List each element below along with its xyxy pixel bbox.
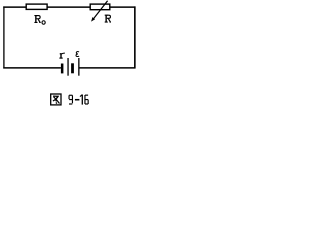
wire top-middle segment — [48, 6, 90, 8]
caption text hyphen — [75, 99, 80, 101]
label epsilon (emf) — [76, 52, 79, 57]
battery cell 2 positive plate (thin long) — [78, 58, 79, 76]
rheostat arrow shaft — [93, 1, 107, 19]
wire top-left segment — [3, 6, 26, 8]
caption character tu (figure) : outer box — [51, 94, 61, 105]
caption text 1 — [80, 95, 82, 105]
caption character tu : inner strokes — [53, 96, 60, 104]
rheostat arrow head — [91, 17, 95, 22]
wire bottom-left segment — [3, 67, 61, 69]
wire top-right segment — [110, 6, 135, 8]
caption text 9 — [69, 95, 72, 104]
rheostat R body — [90, 4, 110, 10]
wire bottom-right segment — [79, 67, 135, 69]
wire left vertical — [3, 6, 5, 68]
background — [0, 0, 148, 116]
label R (rheostat) — [105, 15, 111, 22]
label R0 : subscript o — [42, 21, 45, 25]
battery cell 2 negative plate (thick short) — [71, 63, 74, 73]
battery cell 1 positive plate (thin long) — [67, 58, 68, 76]
battery cell 1 negative plate (thick short) — [61, 64, 64, 74]
label R0 : letter R — [34, 15, 40, 22]
label r (internal resistance) — [59, 53, 65, 58]
wire right vertical — [134, 6, 136, 68]
resistor R0 body — [26, 4, 47, 9]
caption text 6 — [85, 95, 88, 104]
